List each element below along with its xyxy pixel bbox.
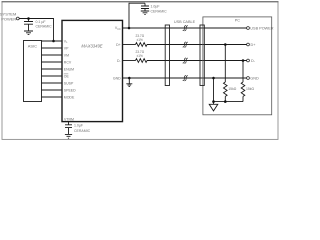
terminal GND [247,77,250,80]
junction dot VL [52,40,55,43]
wire: VP pin [41,47,62,49]
svg-text:VP: VP [64,46,69,50]
cable break squiggles [183,25,188,81]
resistor R3 15k vertical [224,82,228,96]
ground G2 [141,11,149,15]
wire: VCC net from IC to PC [123,27,247,29]
resistor R4 15k vertical [241,82,245,96]
wire: OE pin [41,75,62,77]
wire: D+ resistor to PC terminal [147,44,247,46]
wire: D- resistor to PC terminal [147,60,247,62]
wire: R3 bottom [224,96,226,101]
wire: VL pin ASIC to IC [41,40,62,42]
svg-text:MAX3349E: MAX3349E [81,44,102,49]
wire: resistor bottoms bus [214,101,244,103]
wire: D- from IC to resistor [123,60,136,62]
wire: GND net from IC to PC [123,77,247,79]
svg-text:±1%: ±1% [137,38,144,42]
svg-text:RCV: RCV [64,60,72,64]
ground G1 [24,31,33,35]
connector right [200,25,204,86]
terminal D- [247,59,250,62]
svg-text:CERAMIC: CERAMIC [36,25,53,29]
capacitor C3 plates [65,125,72,128]
ground G3 at IC GND pin [126,78,132,86]
border frame [2,2,278,140]
junction dot GND at IC [128,77,131,80]
svg-text:MODE: MODE [64,95,75,99]
terminal SYSTEM POWER [16,17,19,20]
junction dot system power [27,17,30,20]
wire: D+ from IC to resistor [123,44,136,46]
ground G4 [65,134,72,138]
svg-text:GND: GND [113,76,121,80]
svg-text:1.0µF: 1.0µF [74,123,83,127]
wire: R4 bottom [242,96,244,101]
capacitor C2 plates [141,6,149,9]
svg-text:15kΩ: 15kΩ [246,87,254,91]
wire: RCV pin [41,61,62,63]
svg-text:OE: OE [64,74,70,78]
svg-text:D+: D+ [251,43,257,47]
svg-text:CERAMIC: CERAMIC [74,129,91,133]
junction dot VCC [128,27,131,30]
capacitor C3 1.0uF VTRM stem [68,122,70,125]
connector left [165,25,169,86]
svg-text:D+: D+ [116,43,121,47]
svg-text:15kΩ: 15kΩ [228,87,236,91]
wire: SUSP pin [41,82,62,84]
svg-text:SUSP: SUSP [64,81,74,85]
terminal D+ [247,43,250,46]
ASIC box [24,41,42,102]
terminal USB POWER [247,27,250,30]
wire: 15k pulldown R3 top [224,45,226,83]
capacitor C2 stem bottom [144,9,146,12]
resistor R1 23.7 ohm [136,43,147,47]
svg-text:ASIC: ASIC [28,43,37,48]
squiggle GND line [183,75,188,81]
frame top rule [2,1,279,3]
wire: SPEED pin [41,89,62,91]
junction dot R3 bottom [224,100,227,103]
capacitor C2 1.0uF stem top [144,3,146,6]
resistor R2 23.7 ohm [136,59,147,63]
svg-text:USB CABLE: USB CABLE [174,20,196,24]
svg-text:0.1 µF: 0.1 µF [36,20,46,24]
wire: VCC riser to bypass cap [129,3,145,28]
IC U1 MAX3349E box [62,20,123,121]
junction dot GND in PC [212,77,215,80]
squiggle D- line [183,58,188,64]
capacitor C1 0.1uF stem top [28,19,30,22]
svg-text:PC: PC [235,18,241,22]
svg-text:POWER: POWER [1,16,16,21]
wire: MODE pin [41,96,62,98]
capacitor C3 stem bottom [68,128,70,135]
chassis ground triangle [209,104,218,111]
wire: ENUM pin [41,68,62,70]
junction dot D+ pulldown [224,43,227,46]
wire: VM pin [41,54,62,56]
svg-text:CERAMIC: CERAMIC [151,9,168,13]
wire: 15k pulldown R4 top [242,61,244,83]
squiggle D+ line [183,42,188,48]
svg-text:±1%: ±1% [137,54,144,58]
svg-text:USB POWER: USB POWER [250,26,273,30]
svg-text:VTRM: VTRM [64,117,74,121]
svg-text:GND: GND [250,76,259,80]
junction dot D- pulldown [242,59,245,62]
junction dot ground bus [212,100,215,103]
svg-text:SPEED: SPEED [64,88,76,92]
svg-text:VM: VM [64,53,69,57]
capacitor C1 stem bottom [28,24,30,31]
squiggle VCC line [183,25,188,31]
PC box [203,17,272,115]
wire: SYSTEM POWER to VL riser [19,19,53,42]
svg-text:1.0µF: 1.0µF [151,4,160,8]
wire: PC ground stem [213,78,215,104]
capacitor C1 plates [24,22,33,25]
svg-text:ENUM: ENUM [64,67,74,71]
